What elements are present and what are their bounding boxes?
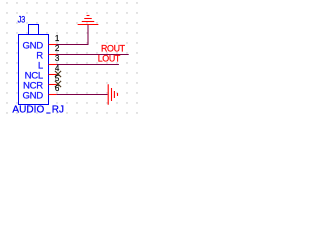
svg-text:4: 4 bbox=[55, 64, 60, 73]
svg-text:6: 6 bbox=[55, 84, 60, 93]
svg-text:3: 3 bbox=[55, 54, 60, 63]
svg-text:J3: J3 bbox=[18, 14, 26, 25]
svg-text:LOUT: LOUT bbox=[98, 54, 121, 64]
svg-text:AUDIO: AUDIO bbox=[12, 105, 44, 116]
svg-text:GND: GND bbox=[23, 90, 44, 101]
svg-text:ROUT: ROUT bbox=[101, 44, 126, 54]
svg-text:1: 1 bbox=[55, 34, 60, 43]
svg-text:5: 5 bbox=[55, 74, 60, 83]
svg-text:2: 2 bbox=[55, 44, 60, 53]
svg-text:RJ: RJ bbox=[52, 105, 64, 116]
